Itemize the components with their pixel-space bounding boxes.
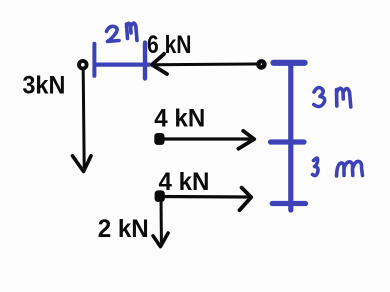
svg-text:4 kN: 4 kN bbox=[154, 104, 205, 132]
svg-text:2 kN: 2 kN bbox=[98, 215, 149, 243]
svg-text:6 kN: 6 kN bbox=[147, 31, 192, 59]
svg-text:3kN: 3kN bbox=[22, 72, 65, 100]
svg-text:4 kN: 4 kN bbox=[159, 168, 210, 196]
